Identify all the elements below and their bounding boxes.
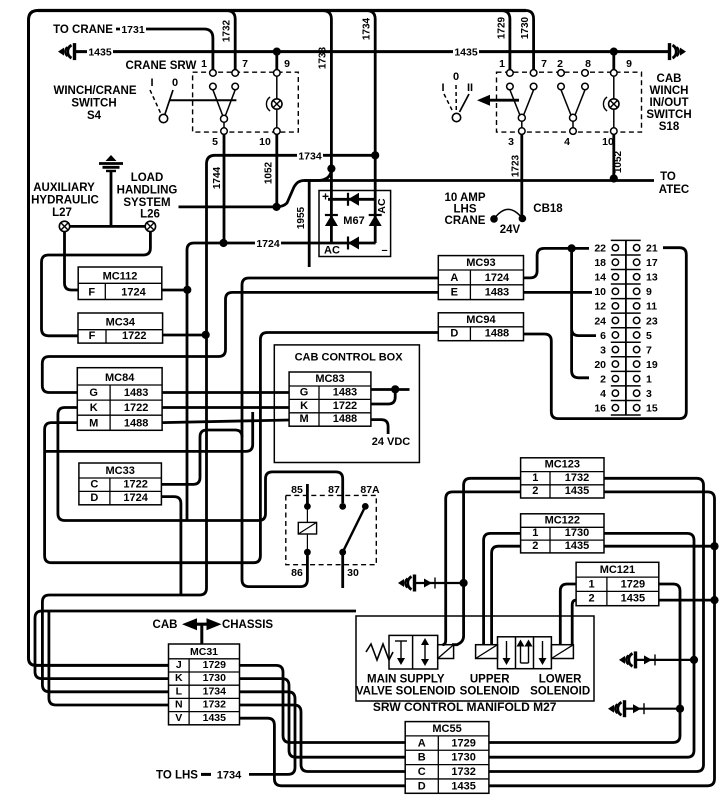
relay terminal 30 — [339, 549, 346, 556]
wire left bundle to MC31-N — [49, 611, 169, 705]
svg-text:1732: 1732 — [451, 766, 475, 778]
wire MC84-K row to MC83-K — [162, 406, 289, 409]
wire MC122-1 left to upper solenoid — [484, 533, 521, 644]
svg-text:2: 2 — [557, 58, 563, 70]
connector table MC84 — [77, 368, 162, 431]
relay dashed box — [286, 495, 377, 564]
wire MC121-1 right to 1729 riser — [489, 584, 680, 743]
svg-text:19: 19 — [646, 359, 658, 371]
svg-text:SOLENOID: SOLENOID — [460, 686, 520, 698]
svg-text:F: F — [88, 287, 95, 299]
wire stub left of 1052 node — [179, 205, 277, 208]
S18 diagonals to pin 4 — [561, 90, 571, 115]
wire 1733 drop from bus to M67 — [322, 11, 331, 201]
svg-text:8: 8 — [585, 58, 591, 70]
wire left bundle to MC31-K — [35, 611, 356, 679]
node dot MC122-2/1435 — [710, 542, 718, 550]
node dot 1435/S18 pin9 — [610, 48, 618, 56]
wire MC93-A loop up to pin 22 — [524, 248, 590, 278]
svg-text:1722: 1722 — [122, 330, 146, 342]
S18 diagonals to pin 3 — [510, 90, 520, 115]
svg-text:1729: 1729 — [496, 16, 507, 39]
main valve right cell arrow — [424, 643, 426, 661]
svg-text:3: 3 — [646, 388, 652, 400]
box SRW CONTROL MANIFOLD M27 — [356, 616, 594, 701]
svg-text:E: E — [451, 287, 458, 299]
svg-text:22: 22 — [594, 243, 606, 255]
svg-text:1729: 1729 — [451, 737, 475, 749]
node dot 1435/S4 pin9 — [273, 48, 281, 56]
wire MC33-D stub down — [161, 497, 181, 595]
node dot pin22 junction — [568, 244, 576, 252]
svg-text:SYSTEM: SYSTEM — [123, 197, 170, 209]
svg-text:MC55: MC55 — [432, 723, 461, 735]
label 1731 — [120, 22, 146, 34]
svg-text:MC34: MC34 — [106, 317, 136, 329]
wire 1734 drop from bus — [366, 11, 375, 200]
svg-text:A: A — [450, 272, 458, 284]
chassis ground symbol — [106, 155, 117, 161]
wire MC31-N right to MC55-C — [240, 705, 406, 772]
box CAB CONTROL BOX — [274, 345, 419, 463]
svg-text:85: 85 — [291, 484, 303, 496]
svg-text:II: II — [467, 82, 473, 94]
svg-text:M: M — [89, 417, 98, 429]
svg-text:CAB: CAB — [153, 619, 178, 631]
S18 pilot lamp — [613, 76, 615, 98]
svg-text:AUXILIARY: AUXILIARY — [33, 182, 95, 194]
label CAB CONTROL BOX — [283, 350, 411, 363]
svg-text:B: B — [418, 752, 426, 764]
relay terminal 87A — [362, 503, 369, 510]
node dot 1733/branch — [327, 165, 335, 173]
svg-text:1435: 1435 — [451, 780, 475, 792]
svg-text:17: 17 — [646, 257, 658, 269]
svg-text:V: V — [175, 712, 182, 724]
label 1435 (left) — [87, 45, 113, 57]
svg-text:2: 2 — [532, 485, 538, 497]
svg-text:M67: M67 — [343, 215, 364, 227]
svg-text:1724: 1724 — [485, 272, 510, 284]
S4 pin 9 contact — [274, 70, 281, 77]
svg-text:G: G — [89, 387, 98, 399]
svg-text:4: 4 — [600, 388, 606, 400]
node dot 1052/ATEC — [610, 174, 618, 182]
lamp L27 — [59, 221, 69, 231]
wire MC122-2 right to 1435 riser — [604, 545, 715, 548]
wire TO ATEC — [277, 181, 655, 207]
svg-text:1435: 1435 — [621, 593, 645, 605]
wire 1729 drop from bus to S18 pin 1 — [501, 11, 510, 71]
svg-text:0: 0 — [453, 71, 459, 83]
tap symbol to 1730 — [619, 656, 625, 664]
svg-text:SWITCH: SWITCH — [71, 98, 116, 110]
svg-text:7: 7 — [646, 344, 652, 356]
wire branch horizontal y451 — [45, 412, 253, 451]
svg-text:MC31: MC31 — [190, 646, 218, 658]
node dot MC34-F — [202, 331, 210, 339]
rectifier M67 box — [319, 191, 391, 257]
svg-text:1435: 1435 — [88, 47, 112, 59]
tap symbol to 1729 — [608, 705, 614, 713]
S4 toggle common circle — [159, 114, 167, 122]
svg-text:1: 1 — [532, 527, 538, 539]
wire MC112-F to 1724 vertical — [162, 289, 189, 292]
svg-text:1: 1 — [588, 578, 594, 590]
svg-text:24: 24 — [594, 315, 606, 327]
svg-text:SWITCH: SWITCH — [646, 109, 691, 121]
svg-text:1723: 1723 — [511, 154, 522, 177]
relay coil — [298, 522, 316, 534]
svg-text:SRW CONTROL MANIFOLD M27: SRW CONTROL MANIFOLD M27 — [373, 700, 557, 714]
svg-text:10: 10 — [259, 136, 271, 148]
svg-text:UPPER: UPPER — [470, 674, 510, 686]
svg-text:K: K — [90, 402, 98, 414]
main supply valve body — [389, 635, 438, 669]
svg-text:14: 14 — [594, 272, 606, 284]
svg-text:I: I — [441, 82, 444, 94]
svg-text:9: 9 — [626, 58, 632, 70]
S4 pilot lamp — [276, 76, 278, 98]
wire MC123-1 left to main supply solenoid — [452, 478, 521, 644]
svg-text:ATEC: ATEC — [659, 184, 689, 196]
switch S4 dashed box — [193, 72, 299, 132]
wire to S4 pin 9 — [275, 52, 278, 70]
connector table MC34 — [78, 313, 163, 343]
wire MC31-K right to MC55-B — [240, 679, 406, 758]
svg-text:1724: 1724 — [121, 287, 146, 299]
node dot 1744/1724 — [219, 239, 227, 247]
relay terminal 85 — [304, 503, 311, 510]
svg-text:F: F — [89, 330, 96, 342]
connector table MC31 — [169, 644, 240, 725]
svg-text:2: 2 — [600, 373, 606, 385]
wire 1955 — [308, 181, 311, 268]
wire MC94-D long horizontal to 1488 loop — [45, 333, 439, 563]
relay 85 stub — [306, 484, 309, 506]
connector table MC55 — [405, 722, 489, 794]
svg-text:1052: 1052 — [613, 150, 624, 173]
wire MC93-E long horizontal to MC84-G (1483) — [42, 292, 438, 392]
svg-text:1732: 1732 — [203, 699, 227, 711]
svg-text:D: D — [418, 780, 426, 792]
svg-text:11: 11 — [646, 301, 657, 313]
svg-text:TO LHS: TO LHS — [156, 770, 198, 782]
switch S18 dashed box — [497, 72, 642, 132]
svg-text:1732: 1732 — [565, 472, 589, 484]
svg-text:1729: 1729 — [203, 659, 227, 671]
svg-text:4: 4 — [564, 136, 570, 148]
wire L27 to MC112-F — [65, 232, 79, 290]
wire 1734 horizontal to left drop — [42, 155, 375, 692]
connector table MC33 — [79, 463, 161, 505]
wire MC31-L right to TO LHS — [240, 692, 296, 775]
svg-text:K: K — [300, 400, 308, 412]
M67 top rail with diode — [328, 198, 375, 201]
svg-text:G: G — [300, 386, 309, 398]
svg-text:MC121: MC121 — [600, 564, 635, 576]
svg-text:1488: 1488 — [485, 328, 509, 340]
wire MC84-M row to MC83-M — [162, 420, 289, 423]
svg-text:1722: 1722 — [124, 402, 148, 414]
svg-text:21: 21 — [646, 243, 658, 255]
main valve left cell arrow — [395, 640, 407, 642]
wire 1052 from S18 pin 10 to ATEC line — [612, 134, 615, 178]
S18 toggle common circle — [452, 113, 460, 121]
svg-text:13: 13 — [646, 272, 658, 284]
node dot MC112-F/1724 — [183, 286, 191, 294]
svg-text:1730: 1730 — [565, 527, 589, 539]
svg-text:1435: 1435 — [565, 540, 589, 552]
svg-text:C: C — [418, 766, 426, 778]
svg-text:SRW: SRW — [170, 60, 197, 72]
CAB-CHASSIS arrow symbol — [182, 618, 197, 630]
svg-text:1734: 1734 — [203, 685, 227, 697]
svg-text:87: 87 — [328, 484, 340, 496]
svg-text:J: J — [176, 659, 182, 671]
S18 pin 1 contacts — [507, 70, 514, 77]
svg-text:HANDLING: HANDLING — [117, 185, 178, 197]
svg-text:1435: 1435 — [203, 712, 227, 724]
svg-text:1483: 1483 — [124, 387, 148, 399]
svg-text:L26: L26 — [140, 209, 160, 221]
relay blade 30-87A — [343, 506, 366, 552]
S4 toggle solid 0 arm — [165, 90, 173, 114]
svg-text:10: 10 — [594, 286, 606, 298]
S18 pin 2 contacts — [558, 70, 565, 77]
svg-text:AC: AC — [376, 198, 388, 214]
svg-text:CAB CONTROL BOX: CAB CONTROL BOX — [295, 352, 404, 364]
svg-text:CHASSIS: CHASSIS — [222, 619, 273, 631]
svg-text:1488: 1488 — [333, 413, 357, 425]
svg-text:20: 20 — [594, 359, 606, 371]
svg-text:1734: 1734 — [362, 17, 373, 40]
svg-text:1744: 1744 — [212, 166, 223, 189]
wire MC31-J right to MC55-A — [240, 665, 406, 742]
connector table MC121 — [576, 562, 659, 605]
S18 actuator arrow — [477, 95, 490, 106]
connector table MC93 — [438, 256, 523, 300]
wire MC122-2 left to upper solenoid — [492, 546, 521, 644]
svg-text:1729: 1729 — [621, 578, 645, 590]
node dot tap/1729 — [676, 705, 684, 713]
wire 1730 drop from bus to S18 pin 7 — [526, 11, 534, 71]
node dot MC121-2/1435 — [710, 596, 718, 604]
svg-text:N: N — [175, 699, 183, 711]
connector table MC112 — [78, 267, 162, 300]
svg-text:VALVE SOLENOID: VALVE SOLENOID — [356, 686, 456, 698]
wire MC34-F to 1734 vertical — [163, 334, 206, 337]
relay 30 wire stub — [341, 552, 344, 588]
svg-text:K: K — [175, 672, 183, 684]
svg-text:LOAD: LOAD — [131, 172, 164, 184]
S18 toggle solid II arm — [460, 94, 470, 112]
wire MC121-2 right to 1435 riser — [659, 599, 715, 602]
connector table MC94 — [438, 313, 523, 341]
wire MC93-E to pin 10 — [524, 291, 593, 294]
connector symbol (right end of 1435) — [680, 48, 686, 56]
svg-text:1: 1 — [201, 58, 207, 70]
svg-text:MC33: MC33 — [105, 465, 134, 477]
svg-text:1724: 1724 — [123, 492, 148, 504]
wire MC83-M stub to 24VDC — [371, 420, 388, 434]
svg-text:1488: 1488 — [124, 417, 148, 429]
svg-text:MC84: MC84 — [105, 372, 135, 384]
svg-text:9: 9 — [646, 286, 652, 298]
wire MC83-G stub with jumper to K — [371, 388, 410, 391]
svg-text:1722: 1722 — [123, 478, 147, 490]
circuit breaker CB18 — [490, 215, 498, 223]
svg-text:S18: S18 — [659, 121, 680, 133]
wire branch from 1733 node to ATEC line — [304, 169, 331, 181]
svg-text:5: 5 — [646, 330, 652, 342]
svg-text:1955: 1955 — [296, 206, 307, 229]
svg-text:1: 1 — [499, 58, 505, 70]
M67 right diode — [369, 215, 382, 226]
lower solenoid tab — [551, 645, 573, 659]
svg-text:D: D — [450, 328, 458, 340]
svg-text:A: A — [418, 737, 426, 749]
M67 right branch (from 1734) — [374, 199, 377, 243]
upper valve arrows — [503, 658, 511, 665]
svg-text:1435: 1435 — [565, 485, 589, 497]
svg-text:7: 7 — [242, 58, 248, 70]
svg-text:30: 30 — [347, 567, 359, 579]
wire MC84-G row to MC83-G — [162, 391, 289, 394]
svg-text:CRANE: CRANE — [126, 60, 167, 72]
upper solenoid tab — [476, 645, 498, 659]
node dot tap/1730 — [690, 656, 698, 664]
connector symbol (left end of 1435) — [58, 48, 64, 56]
svg-text:24V: 24V — [500, 224, 521, 236]
main supply valve spring — [366, 644, 393, 660]
tap symbol to 1732 — [398, 579, 404, 587]
svg-text:MC94: MC94 — [466, 314, 496, 326]
svg-text:1722: 1722 — [333, 400, 357, 412]
svg-text:1731: 1731 — [121, 24, 145, 36]
svg-text:MC123: MC123 — [545, 459, 580, 471]
svg-text:23: 23 — [646, 315, 658, 327]
connector table MC83 — [289, 372, 371, 426]
wire 1435 bus — [75, 50, 669, 53]
svg-text:2: 2 — [588, 593, 594, 605]
svg-text:LHS: LHS — [454, 204, 477, 216]
wire top bus — [38, 9, 526, 12]
S18 pin 7 contacts — [530, 70, 537, 77]
connector table MC123 — [521, 458, 604, 498]
connector table MC122 — [521, 514, 604, 553]
svg-text:9: 9 — [284, 58, 290, 70]
S4 pin 7 contacts — [232, 70, 239, 77]
svg-text:L27: L27 — [52, 207, 72, 219]
wire L26 down-left-down to MC34-F — [42, 232, 151, 336]
svg-text:7: 7 — [541, 58, 547, 70]
wire MC121-2 left to lower solenoid — [572, 600, 576, 644]
S18 pin 9 contact — [611, 70, 618, 77]
svg-text:1732: 1732 — [222, 19, 233, 42]
svg-text:+: + — [322, 190, 329, 204]
svg-text:1: 1 — [532, 472, 538, 484]
wire 1052 from S4 pin 10 — [275, 134, 278, 207]
svg-text:87A: 87A — [360, 484, 380, 496]
wire to S18 pin 9 — [612, 52, 615, 70]
S4 toggle dashed I arm — [150, 90, 161, 114]
svg-text:1483: 1483 — [485, 287, 509, 299]
wire MC31-V right to MC55-D — [240, 718, 406, 786]
wire MC33-C up and over, merging into A vertical — [161, 430, 242, 484]
M67 left diode — [325, 215, 338, 226]
wire MC121-1 left to lower solenoid — [560, 584, 576, 644]
svg-text:6: 6 — [600, 330, 606, 342]
svg-text:10: 10 — [602, 136, 614, 148]
S4 contact diagonals to pin 5 — [213, 90, 223, 116]
svg-text:LOWER: LOWER — [539, 674, 582, 686]
svg-text:86: 86 — [291, 567, 303, 579]
svg-text:WINCH/CRANE: WINCH/CRANE — [53, 85, 136, 97]
svg-text:CB18: CB18 — [533, 203, 563, 215]
wire MC93-A long horizontal down to relay 86 — [242, 278, 438, 587]
svg-text:MC83: MC83 — [315, 373, 344, 385]
svg-text:5: 5 — [212, 136, 218, 148]
svg-text:2: 2 — [532, 540, 538, 552]
connector pin ladder — [594, 240, 658, 415]
svg-text:16: 16 — [594, 403, 606, 415]
wire MC123-2 left to main supply solenoid — [443, 492, 521, 645]
label 1724 — [255, 236, 281, 248]
wire 1724 horizontal — [187, 243, 376, 521]
svg-text:1730: 1730 — [520, 16, 531, 39]
S4 wiper bar — [170, 99, 236, 101]
svg-text:D: D — [90, 492, 98, 504]
wire 1744 from S4 pin 5 — [223, 134, 226, 243]
svg-text:3: 3 — [600, 344, 606, 356]
S18 pin 8 contacts — [582, 70, 589, 77]
svg-text:–: – — [381, 245, 387, 257]
wire MC123-1 right to 1732 riser — [489, 478, 704, 771]
svg-text:IN/OUT: IN/OUT — [650, 97, 689, 109]
upper/lower valve body — [498, 637, 552, 669]
svg-text:MC93: MC93 — [466, 257, 495, 269]
node dot MC83-G — [391, 385, 399, 393]
svg-text:MC122: MC122 — [545, 514, 580, 526]
wire 1732 drop from bus to S4 pin 7 — [226, 11, 235, 71]
svg-text:L: L — [176, 685, 183, 697]
wire 1731 to S4 pin 1 — [116, 29, 213, 70]
svg-text:HYDRAULIC: HYDRAULIC — [31, 195, 99, 207]
svg-text:SOLENOID: SOLENOID — [530, 686, 590, 698]
svg-text:MAIN SUPPLY: MAIN SUPPLY — [367, 674, 445, 686]
node dot tap/1732 — [460, 579, 468, 587]
wire branch down to pins 6 and 2 — [572, 248, 596, 335]
svg-text:I: I — [150, 77, 153, 89]
label 1734 — [297, 149, 323, 161]
svg-text:1730: 1730 — [203, 672, 227, 684]
main valve solenoid tab — [438, 645, 454, 659]
wire MC122-1 right to 1730 riser — [489, 533, 694, 757]
label 1435 (right) — [453, 45, 479, 57]
svg-text:3: 3 — [508, 136, 514, 148]
svg-text:1435: 1435 — [454, 47, 478, 59]
svg-text:1483: 1483 — [333, 386, 357, 398]
relay terminal 87 — [339, 503, 346, 510]
wire MC94-D right loop to pin 21 — [524, 248, 687, 419]
svg-text:10 AMP: 10 AMP — [444, 192, 485, 204]
svg-text:AC: AC — [324, 245, 340, 257]
svg-text:TO CRANE: TO CRANE — [53, 24, 113, 36]
svg-text:MC112: MC112 — [103, 270, 138, 282]
svg-text:12: 12 — [594, 301, 606, 313]
svg-text:0: 0 — [172, 77, 178, 89]
